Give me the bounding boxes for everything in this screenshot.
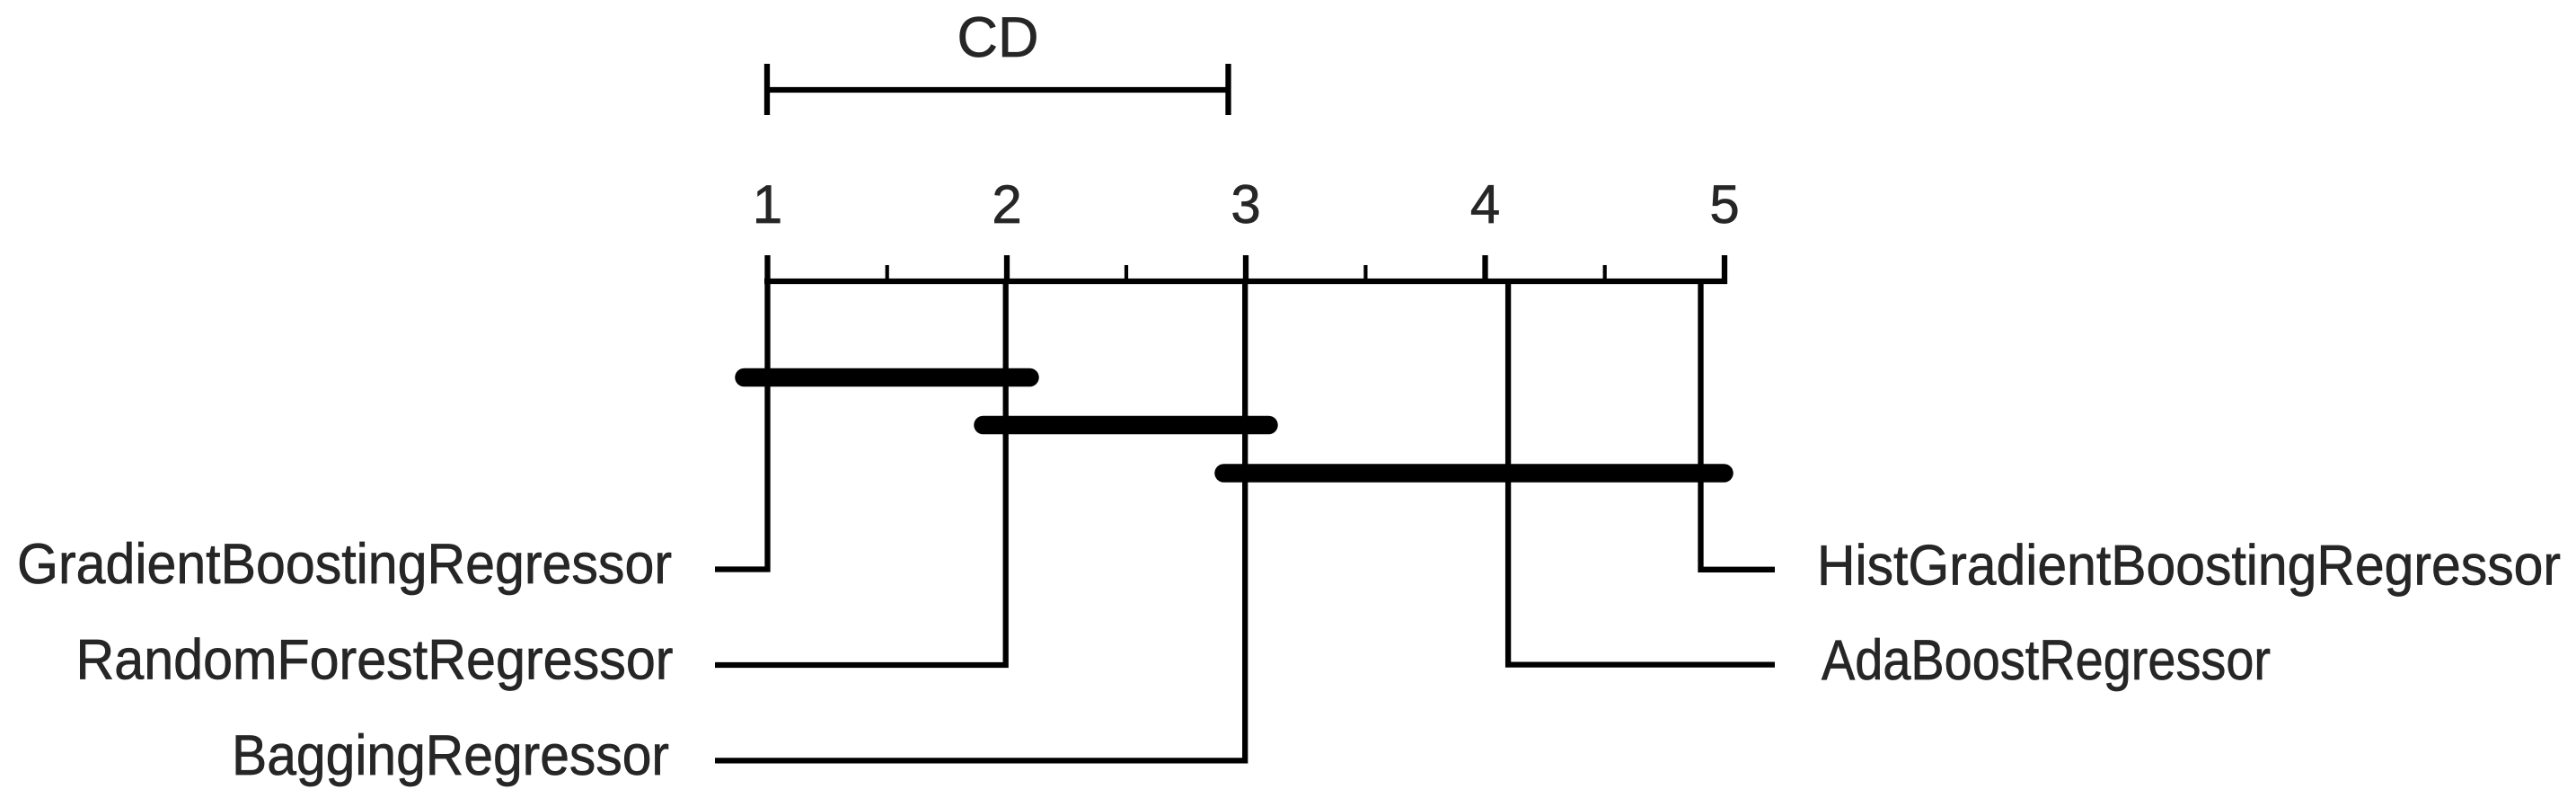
svg-text:CD: CD xyxy=(957,6,1039,69)
connector HistGradientBoostingRegressor xyxy=(1701,281,1776,570)
connector BaggingRegressor xyxy=(715,281,1245,760)
svg-text:GradientBoostingRegressor: GradientBoostingRegressor xyxy=(17,533,672,596)
svg-text:AdaBoostRegressor: AdaBoostRegressor xyxy=(1822,629,2271,692)
svg-text:RandomForestRegressor: RandomForestRegressor xyxy=(76,629,674,692)
svg-text:BaggingRegressor: BaggingRegressor xyxy=(232,724,669,787)
connector GradientBoostingRegressor xyxy=(715,281,768,570)
svg-text:1: 1 xyxy=(753,174,782,235)
svg-text:5: 5 xyxy=(1709,174,1739,235)
svg-text:4: 4 xyxy=(1470,174,1500,235)
major ticks xyxy=(768,255,1725,284)
CD interval bracket xyxy=(767,64,1229,115)
svg-text:3: 3 xyxy=(1231,174,1260,235)
clique bar 1 xyxy=(745,368,1030,387)
clique bar 3 xyxy=(1224,464,1725,483)
svg-text:2: 2 xyxy=(992,174,1021,235)
connector RandomForestRegressor xyxy=(715,281,1006,665)
axis line xyxy=(764,279,1727,284)
serif foot of digit 1 (DejaVu style) xyxy=(756,218,780,223)
minor ticks xyxy=(887,265,1605,281)
svg-text:HistGradientBoostingRegressor: HistGradientBoostingRegressor xyxy=(1817,535,2561,598)
clique bar 2 xyxy=(984,416,1269,435)
connector AdaBoostRegressor xyxy=(1508,281,1775,665)
